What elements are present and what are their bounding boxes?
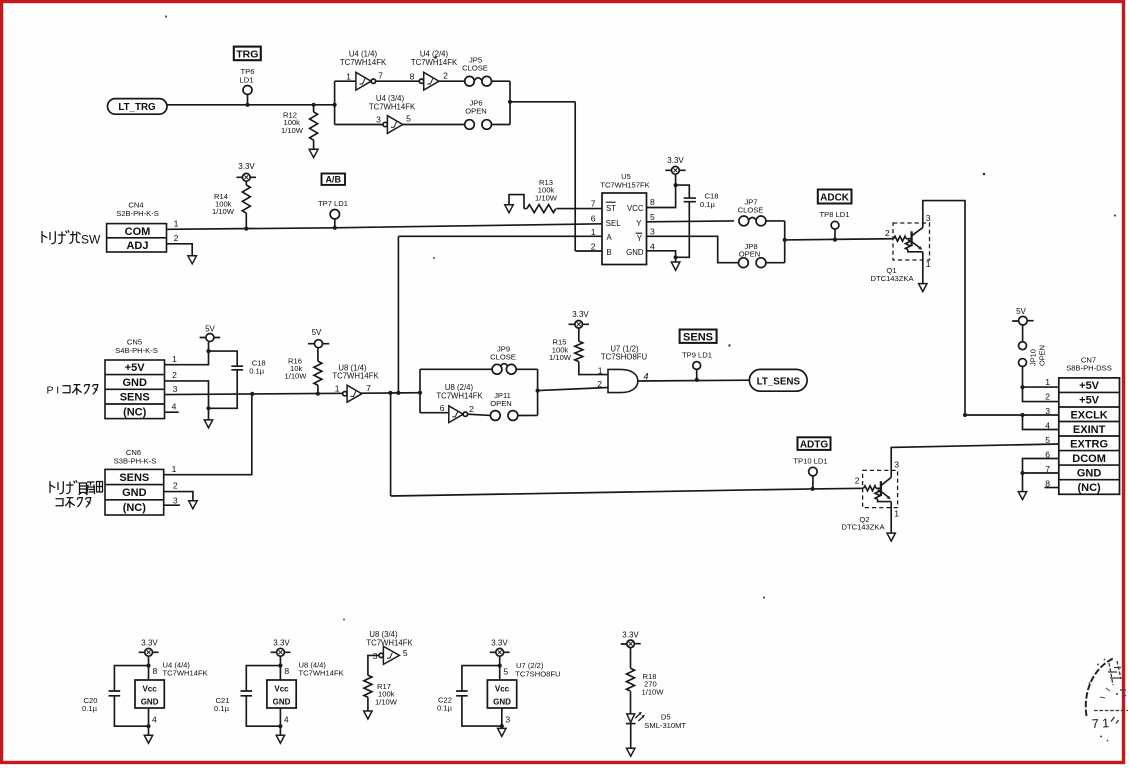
svg-text:U8 (3/4): U8 (3/4) [369,630,398,639]
svg-text:CLOSE: CLOSE [738,205,764,214]
svg-text:A/B: A/B [325,175,341,185]
power 3.3V (U5) [665,156,685,174]
svg-text:U4 (3/4): U4 (3/4) [376,94,405,103]
op-amp U8 (2/4) TC7WH14FK inverter [436,383,490,423]
svg-text:DTC143ZKA: DTC143ZKA [870,274,914,283]
svg-text:TC7WH14FK: TC7WH14FK [436,391,483,400]
svg-text:0.1µ: 0.1µ [214,704,230,713]
svg-text:A: A [607,233,613,242]
svg-text:TC7WH14FK: TC7WH14FK [332,371,379,380]
jumper JP8 OPEN [739,242,785,268]
svg-text:6: 6 [591,213,596,223]
svg-text:8: 8 [650,197,655,207]
svg-text:2: 2 [174,233,179,243]
ground (CN4 pin2) [188,256,197,264]
ground (Q2) [887,533,895,541]
svg-text:TC7SHO8FU: TC7SHO8FU [515,670,560,679]
wire Q2 collector to CN7 EXTRG [891,444,1059,477]
resistor R13 100k 1/10W [509,178,602,213]
svg-text:1/10W: 1/10W [642,687,665,696]
resistor R16 10k 1/10W [285,356,322,393]
wire LT_TRG to inverter branch [167,104,335,106]
svg-text:4: 4 [284,715,289,725]
svg-text:1/10W: 1/10W [535,193,558,202]
svg-text:3.3V: 3.3V [273,639,290,648]
svg-text:DCOM: DCOM [1072,453,1106,465]
capacitor C21 0.1u [214,666,280,727]
svg-text:1: 1 [1045,377,1050,387]
svg-text:2: 2 [172,370,177,380]
jumper JP10 OPEN [1019,342,1047,387]
svg-text:TP9 LD1: TP9 LD1 [682,350,712,359]
svg-text:4: 4 [152,715,157,725]
svg-text:3: 3 [376,115,381,125]
node LT_TRG [108,99,168,115]
svg-text:5V: 5V [205,325,215,334]
svg-text:TP7 LD1: TP7 LD1 [318,199,348,208]
svg-text:JP10: JP10 [1029,349,1038,366]
wire U5 A pin to lower net [398,236,602,393]
svg-text:S4B-PH-K-S: S4B-PH-K-S [115,346,158,355]
svg-text:8: 8 [284,666,289,676]
junction node after U8 output [388,391,392,395]
svg-text:1/10W: 1/10W [281,126,304,135]
ic U7 (2/2) TC7SH08FU power block [487,656,560,728]
jumper JP11 OPEN [490,391,537,420]
svg-text:2: 2 [885,228,890,238]
svg-text:6: 6 [440,403,445,413]
wire box parallel paths JP9/U8(2/4) [420,369,538,415]
svg-text:3.3V: 3.3V [622,631,639,640]
connector CN5 S4B-PH-K-S [105,338,165,419]
svg-text:3.3V: 3.3V [572,310,589,319]
power 3.3V (LED) [621,631,641,669]
op-amp U4 (3/4) TC7WH14FK inverter [335,94,465,133]
svg-text:0.1µ: 0.1µ [249,367,265,376]
wire CN7 pin2 [1023,387,1059,402]
svg-text:TC7WH14FK: TC7WH14FK [340,58,387,67]
ground (R12) [309,149,318,157]
svg-text:VCC: VCC [627,204,644,213]
svg-text:EXTRG: EXTRG [1070,438,1108,450]
svg-text:(NC): (NC) [123,406,147,418]
svg-text:5V: 5V [1016,307,1026,316]
svg-text:2: 2 [597,379,602,389]
svg-text:GND: GND [122,487,147,499]
paper specks [165,15,167,17]
svg-text:S2B-PH-K-S: S2B-PH-K-S [116,209,159,218]
svg-text:3.3V: 3.3V [141,639,158,648]
svg-text:GND: GND [122,377,147,389]
svg-text:TC7WH157FK: TC7WH157FK [600,181,649,190]
svg-text:7: 7 [378,71,383,81]
svg-text:2: 2 [173,481,178,491]
svg-text:1/10W: 1/10W [285,372,308,381]
net label ADCK [818,190,852,204]
svg-text:TC7WH14FK: TC7WH14FK [369,103,416,112]
svg-text:TRG: TRG [236,48,258,60]
test point TP8 LD1 [820,210,850,239]
wire U5 Ybar pin3 to JP8 [647,236,739,262]
svg-text:3.3V: 3.3V [491,639,508,648]
svg-text:(NC): (NC) [123,502,147,514]
wire CN7 pin7 GND to ground [1023,473,1059,492]
svg-text:ADTG: ADTG [800,439,829,450]
svg-text:ADJ: ADJ [126,240,148,252]
svg-text:4: 4 [172,401,177,411]
jumper JP9 CLOSE [490,345,516,375]
svg-text:2: 2 [1045,391,1050,401]
ic U8 (4/4) TC7WH14FK power block [267,656,344,735]
svg-text:1: 1 [894,508,899,518]
svg-text:1: 1 [598,365,603,375]
svg-text:TC7WH14FK: TC7WH14FK [163,669,208,678]
svg-text:TC7SHO8FU: TC7SHO8FU [601,353,648,362]
svg-text:ST: ST [606,204,616,213]
svg-text:TC7WH14FK: TC7WH14FK [411,58,458,67]
wire CN5 pin4 stub [165,411,179,413]
svg-text:LD1: LD1 [240,75,254,84]
ic U4 (4/4) TC7WH14FK power block [135,656,208,735]
svg-text:7 1: 7 1 [1091,716,1109,731]
wire CN7 pin4 EXINT [1023,415,1059,430]
svg-text:Vcc: Vcc [274,685,289,694]
svg-text:Vcc: Vcc [142,685,157,694]
ground (U5) [671,262,680,270]
wire down to ADTG line [391,393,864,496]
net label A/B [322,174,346,185]
op-amp U4 (1/4) TC7WH14FK inverter [335,50,420,91]
svg-text:1: 1 [172,354,177,364]
wire CN4 pin1 COM to U5 SEL [167,224,603,230]
connector CN7 S8B-PH-DSS [1045,355,1119,494]
svg-text:GND: GND [273,698,291,707]
svg-text:1/10W: 1/10W [212,207,235,216]
svg-text:3.3V: 3.3V [238,162,255,171]
svg-text:Vcc: Vcc [495,685,510,694]
svg-text:3: 3 [926,213,931,223]
power 3.3V (U8 spare) [271,639,291,657]
svg-text:5: 5 [650,212,655,222]
wire CN6 pin1 SENS up to main line [164,394,252,475]
svg-text:OPEN: OPEN [465,107,487,116]
svg-text:1: 1 [926,259,931,269]
ground (U7 spare) [498,728,506,736]
svg-text:EXINT: EXINT [1073,424,1106,436]
transistor Q2 DTC143ZKA [841,459,899,531]
svg-text:EXCLK: EXCLK [1070,409,1107,421]
svg-text:5: 5 [403,648,408,658]
wire CN5 pin3 SENS main line [165,393,421,395]
resistor R17 100k 1/10W [364,675,398,711]
svg-text:SENS: SENS [683,331,713,343]
capacitor C18 0.1u (U5) [676,185,719,257]
svg-text:5: 5 [406,114,411,124]
wire CN7 pin6 DCOM [1023,459,1059,474]
power 3.3V (R15) [569,310,590,341]
svg-text:3: 3 [173,384,178,394]
svg-text:3.3V: 3.3V [667,156,684,165]
capacitor C20 0.1u [82,666,148,727]
svg-text:8: 8 [153,666,158,676]
ground (R13) [505,205,513,213]
connector CN6 S3B-PH-K-S [105,448,164,515]
svg-text:+5V: +5V [1079,395,1100,407]
svg-text:1: 1 [346,72,351,82]
svg-text:SENS: SENS [120,392,150,404]
wire CN4 pin2 ADJ to ground [167,244,193,256]
ground (Q1) [919,284,927,292]
resistor R15 100k 1/10W [549,338,608,375]
svg-text:8: 8 [410,72,415,82]
svg-text:OPEN: OPEN [1038,345,1047,366]
test point TP10 LD1 [793,457,827,489]
wire CN6 pin2 GND to ground [164,492,193,501]
wire branch verticals [334,81,336,124]
ground (CN6) [189,501,197,509]
svg-text:1: 1 [335,383,340,393]
wire Q1 emitter to ground [922,252,924,284]
svg-text:GND: GND [141,698,159,707]
svg-text:LT_TRG: LT_TRG [118,102,156,113]
svg-text:DTC143ZKA: DTC143ZKA [841,522,885,531]
svg-text:ADCK: ADCK [820,193,850,204]
power 3.3V (U4 spare) [139,639,159,657]
svg-text:GND: GND [1077,468,1102,480]
resistor R18 270 1/10W [627,668,665,714]
svg-text:U5: U5 [621,172,631,181]
svg-text:3: 3 [505,715,510,725]
svg-text:SENS: SENS [119,472,149,484]
svg-text:S3B-PH-K-S: S3B-PH-K-S [114,456,157,465]
power 5V (R16) [308,328,329,361]
resistor R14 100k 1/10W [212,185,250,229]
ground (U8 spare) [276,735,284,743]
wire U7 output to LT_SENS [638,379,750,382]
wire box output to U7 pin2 [538,388,608,391]
svg-text:S8B-PH-DSS: S8B-PH-DSS [1066,364,1112,373]
test point TP9 LD1 [682,350,712,380]
svg-text:1/10W: 1/10W [549,353,572,362]
svg-text:CLOSE: CLOSE [490,353,516,362]
op-amp U8 (3/4) TC7WH14FK inverter (spare) [366,630,413,675]
svg-text:TP10 LD1: TP10 LD1 [793,457,827,466]
power 5V (CN5) [200,325,221,342]
wire CN7 pin1 [1023,386,1059,388]
svg-text:(NC): (NC) [1077,482,1101,494]
capacitor C18 0.1u (CN5) [209,351,266,408]
svg-text:0.1µ: 0.1µ [437,704,453,713]
svg-text:0.1µ: 0.1µ [82,704,98,713]
svg-text:4: 4 [644,372,649,382]
svg-text:3: 3 [894,459,899,469]
ground (LED) [627,748,635,756]
label trigger monitor connector (Japanese) [50,481,103,508]
net label SENS [680,330,717,344]
svg-text:1/10W: 1/10W [375,697,398,706]
svg-text:TC7WH14FK: TC7WH14FK [299,669,344,678]
svg-text:0.1µ: 0.1µ [700,200,716,209]
power 3.3V (R14) [237,162,257,185]
svg-text:1: 1 [172,464,177,474]
svg-text:GND: GND [493,698,511,707]
label trigger switch (Japanese) [42,231,101,247]
svg-text:3: 3 [173,495,178,505]
svg-text:5: 5 [503,667,508,677]
jumper JP6 OPEN [465,99,510,130]
svg-text:B: B [607,248,612,257]
jumper JP5 CLOSE [462,56,510,86]
wire CN5 pin2 GND to ground [165,381,209,420]
stamp mark bottom right [1086,283,1128,741]
and-gate U7 (1/2) TC7SH08FU [597,344,648,392]
wire U5 GND pin4 to ground [647,251,676,262]
wire Q1 collector to CN7 EXCLK [923,201,965,415]
svg-text:SML-310MT: SML-310MT [644,721,686,730]
svg-text:1: 1 [174,219,179,229]
test point TP7 LD1 [318,199,348,228]
svg-text:5V: 5V [312,328,322,337]
svg-text:5: 5 [1045,435,1050,445]
svg-text:2: 2 [855,476,860,486]
wire Q2 emitter to ground [890,502,892,533]
net label TRG [234,47,261,61]
wire CN7 pin8 stub [1045,487,1059,489]
jumper JP7 CLOSE [738,198,785,226]
svg-text:P I: P I [47,385,60,397]
svg-text:SW: SW [81,232,101,246]
led D5 SML-310MT [626,712,687,748]
svg-text:OPEN: OPEN [490,399,512,408]
transistor Q1 DTC143ZKA [870,213,930,283]
power 3.3V (U7 spare) [490,639,510,657]
svg-text:SEL: SEL [606,219,621,228]
ground (U4 spare) [144,735,152,743]
op-amp U8 (1/4) TC7WH14FK inverter [332,363,379,402]
svg-text:+5V: +5V [125,362,146,374]
wire jumper join to Q1 base [785,221,894,263]
svg-text:CLOSE: CLOSE [462,64,488,73]
svg-text:Y: Y [637,234,643,243]
net label ADTG [798,437,831,450]
svg-text:3: 3 [650,227,655,237]
ground (CN7) [1018,492,1026,500]
ground (R17) [364,711,372,719]
svg-text:2: 2 [469,404,474,414]
ground (CN5) [204,420,212,428]
wire inverter output to U5 B [510,81,602,251]
svg-text:GND: GND [626,248,644,257]
wire CN6 pin3 stub [164,504,180,506]
capacitor C22 0.1u [437,666,502,727]
svg-text:2: 2 [443,71,448,81]
wire U5 VCC pin8 [647,174,676,207]
svg-text:TC7WH14FK: TC7WH14FK [366,639,413,648]
label PI connector (Japanese) [47,385,98,397]
wire CN5 pin1 +5V [165,342,209,365]
svg-text:2: 2 [591,242,596,252]
connector CN4 S2B-PH-K-S [107,201,167,253]
multiplexer U5 TC7WH157FK [591,172,655,265]
wire U5 Y pin5 to JP7 [647,220,735,223]
svg-text:COM: COM [125,226,151,238]
wire CN7 pin3 EXCLK [965,414,1059,416]
svg-text:Y: Y [636,219,642,228]
svg-text:7: 7 [366,383,371,393]
svg-text:+5V: +5V [1079,380,1100,392]
test point TP6 LD1 [240,67,255,105]
svg-text:LT_SENS: LT_SENS [757,376,801,387]
power 5V (CN7) [1012,307,1033,342]
op-amp U4 (2/4) TC7WH14FK inverter [410,50,465,91]
svg-text:7: 7 [591,199,596,209]
node LT_SENS [749,369,807,391]
svg-text:TP8 LD1: TP8 LD1 [820,210,850,219]
resistor R12 100k 1/10W [281,105,318,149]
